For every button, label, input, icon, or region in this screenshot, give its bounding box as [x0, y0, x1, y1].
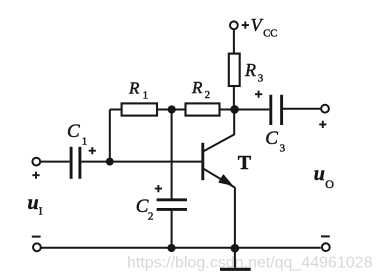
svg-text:3: 3 [280, 142, 286, 154]
svg-text:C: C [67, 121, 80, 142]
svg-text:I: I [39, 206, 43, 218]
svg-text:C: C [265, 128, 278, 149]
svg-text:R: R [244, 60, 256, 80]
svg-text:R: R [128, 79, 140, 98]
svg-text:O: O [325, 177, 334, 191]
svg-text:3: 3 [258, 73, 264, 85]
svg-text:1: 1 [143, 90, 149, 102]
svg-text:1: 1 [82, 135, 88, 147]
svg-text:2: 2 [205, 89, 211, 101]
svg-text:u: u [28, 192, 39, 214]
svg-text:R: R [191, 78, 203, 97]
svg-text:2: 2 [148, 211, 154, 223]
svg-text:C: C [136, 196, 149, 217]
svg-text:T: T [238, 152, 252, 174]
svg-text:CC: CC [263, 29, 277, 40]
svg-text:u: u [314, 163, 325, 185]
